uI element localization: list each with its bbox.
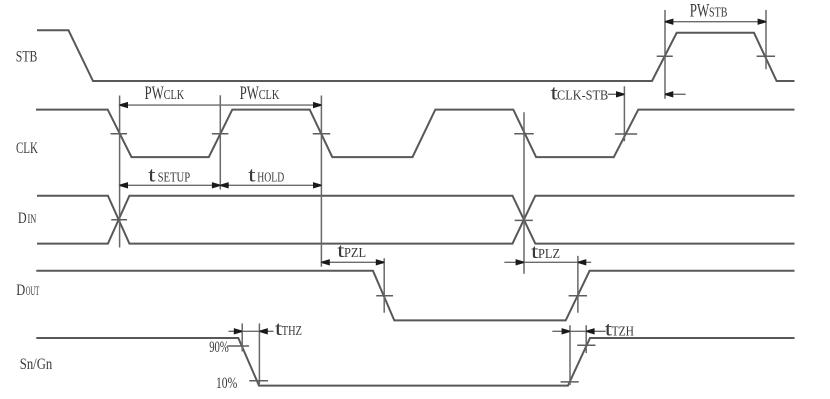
svg-text:t: t (248, 163, 256, 187)
svg-text:D: D (16, 282, 25, 299)
STB waveform (38, 30, 794, 81)
extension line V13 at Sn/Gn 90% rising point (585, 326, 587, 352)
extension line V8 at DOUT falling edge (383, 259, 385, 312)
svg-text:STB: STB (16, 48, 38, 65)
extension line V1 at CLK first falling edge (119, 96, 121, 246)
tick at CLK edge crossing X2 (213, 133, 228, 135)
svg-text:PLZ: PLZ (538, 247, 560, 262)
svg-text:10%: 10% (216, 375, 237, 392)
dimension PWSTB (665, 0, 766, 25)
Sn/Gn waveform (37, 338, 793, 386)
dimension tSETUP (120, 163, 322, 189)
extension line V5 at CLK last rising edge (623, 87, 625, 141)
extension line V9 at DOUT rising edge (577, 257, 579, 312)
extension line V10 at Sn/Gn 90% falling point (241, 324, 243, 351)
svg-text:PW: PW (240, 83, 259, 104)
dimension PWCLK first pulse (120, 83, 322, 108)
label 90% (209, 339, 229, 356)
tick at CLK edge crossing X5 (616, 133, 637, 135)
tick at DOUT falling edge crossing (377, 295, 392, 297)
tick at CLK edge crossing X4 (515, 133, 533, 135)
dimension tTHZ (229, 318, 302, 340)
extension line V6 at STB rising edge (664, 11, 666, 98)
tick at STB rising edge crossing (658, 55, 673, 57)
extension line V2 at CLK first rising edge (219, 96, 221, 189)
svg-text:THZ: THZ (282, 324, 302, 339)
extension line V12 at Sn/Gn 10% rising point (569, 326, 571, 384)
svg-text:TZH: TZH (612, 324, 634, 339)
dimension tHOLD (220, 163, 321, 189)
CLK waveform (37, 110, 794, 158)
signal label DOUT (16, 282, 39, 299)
DIN waveform (38, 196, 794, 244)
extension line V7 at STB falling edge (765, 11, 767, 69)
signal label DIN (18, 210, 36, 227)
svg-text:PW: PW (145, 83, 164, 104)
extension line V3 at CLK second falling edge (320, 96, 322, 266)
dimension tCLK-STB (551, 80, 686, 104)
signal label CLK (16, 140, 38, 157)
svg-text:IN: IN (28, 212, 37, 226)
svg-text:CLK: CLK (164, 88, 185, 103)
svg-text:D: D (18, 210, 27, 227)
tick at DOUT rising edge crossing (569, 295, 586, 297)
svg-text:OUT: OUT (26, 283, 40, 298)
DOUT waveform (37, 271, 793, 321)
tick at DIN crossover X2 (515, 219, 532, 221)
dimension tTZH (553, 318, 634, 340)
signal label STB (16, 48, 38, 65)
tick at CLK edge crossing X3 (314, 133, 330, 135)
tick at Sn/Gn 90% falling level (228, 345, 248, 347)
tick at DIN crossover X1 (112, 219, 126, 221)
signal label Sn/Gn (20, 356, 52, 373)
tick at STB falling edge crossing (757, 55, 774, 57)
tick at Sn/Gn 10% rising level (561, 381, 578, 383)
tick at Sn/Gn 10% falling level (250, 380, 267, 382)
svg-text:HOLD: HOLD (257, 171, 284, 186)
extension line V4 at CLK third falling edge (523, 113, 525, 273)
dimension PWCLK second pulse label (240, 83, 280, 104)
tick at CLK edge crossing X1 (111, 133, 126, 135)
svg-text:STB: STB (709, 5, 727, 20)
tick at Sn/Gn 90% rising level (578, 344, 595, 346)
svg-text:90%: 90% (209, 339, 229, 356)
svg-text:SETUP: SETUP (158, 171, 191, 186)
extension line V11 at Sn/Gn 10% falling point (258, 324, 260, 383)
svg-text:PZL: PZL (344, 246, 366, 261)
svg-text:Sn/Gn: Sn/Gn (20, 356, 52, 373)
dimension tPZL (321, 240, 384, 265)
dimension tPLZ (505, 241, 591, 266)
svg-text:CLK: CLK (16, 140, 38, 157)
svg-text:CLK-STB: CLK-STB (557, 88, 608, 103)
label 10% (216, 375, 237, 392)
svg-text:PW: PW (690, 0, 710, 21)
svg-text:CLK: CLK (259, 88, 280, 103)
svg-text:t: t (148, 163, 156, 187)
